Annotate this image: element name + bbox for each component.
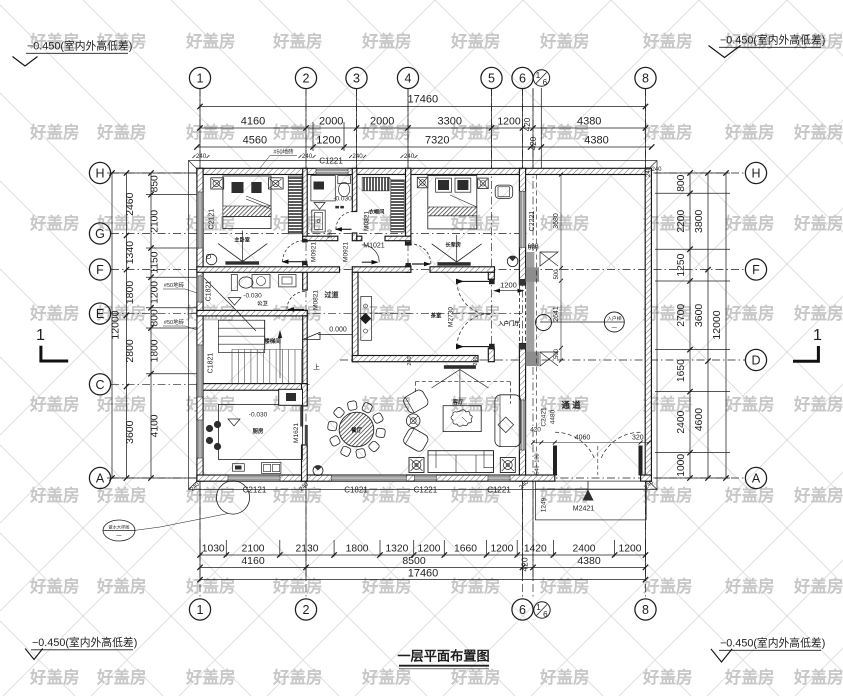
svg-text:6: 6 <box>519 72 526 86</box>
svg-text:17460: 17460 <box>408 94 439 106</box>
svg-text:好盖房: 好盖房 <box>361 667 412 687</box>
svg-text:长辈房: 长辈房 <box>445 240 461 248</box>
svg-text:好盖房: 好盖房 <box>185 576 236 596</box>
svg-text:好盖房: 好盖房 <box>724 303 775 323</box>
svg-text:12000: 12000 <box>711 310 723 339</box>
svg-text:好盖房: 好盖房 <box>361 394 412 414</box>
svg-text:衣帽间: 衣帽间 <box>369 208 385 216</box>
svg-text:8: 8 <box>642 603 649 617</box>
svg-text:好盖房: 好盖房 <box>642 31 693 51</box>
svg-text:好盖房: 好盖房 <box>642 122 693 142</box>
svg-text:F: F <box>752 263 760 277</box>
svg-text:M1621: M1621 <box>293 423 300 443</box>
svg-text:好盖房: 好盖房 <box>185 122 236 142</box>
svg-text:1: 1 <box>197 72 204 86</box>
svg-text:#50地砖: #50地砖 <box>164 281 185 289</box>
svg-text:好盖房: 好盖房 <box>96 122 147 142</box>
svg-text:4160: 4160 <box>241 116 265 128</box>
svg-text:500: 500 <box>554 348 560 359</box>
svg-text:好盖房: 好盖房 <box>272 485 323 505</box>
svg-text:3: 3 <box>353 72 360 86</box>
svg-text:1000: 1000 <box>676 454 687 477</box>
svg-text:4: 4 <box>405 72 412 86</box>
svg-text:−0.450(室内外高低差): −0.450(室内外高低差) <box>720 636 825 650</box>
svg-text:420: 420 <box>529 136 538 150</box>
svg-text:240: 240 <box>302 153 313 160</box>
svg-text:好盖房: 好盖房 <box>29 394 80 414</box>
svg-text:好盖房: 好盖房 <box>96 667 147 687</box>
svg-text:C1821: C1821 <box>344 486 368 495</box>
svg-text:好盖房: 好盖房 <box>29 576 80 596</box>
svg-text:1200: 1200 <box>490 544 513 555</box>
svg-text:3300: 3300 <box>438 116 462 128</box>
svg-text:M0821: M0821 <box>364 211 371 231</box>
svg-text:1800: 1800 <box>124 281 136 305</box>
svg-text:6: 6 <box>519 603 526 617</box>
svg-text:好盖房: 好盖房 <box>724 122 775 142</box>
svg-text:A: A <box>752 472 761 486</box>
svg-text:好盖房: 好盖房 <box>793 576 843 596</box>
svg-text:800: 800 <box>150 309 161 326</box>
svg-text:H: H <box>751 167 760 181</box>
svg-text:2200: 2200 <box>676 209 687 232</box>
svg-text:1250: 1250 <box>676 253 687 276</box>
svg-text:2000: 2000 <box>319 116 343 128</box>
svg-text:C1221: C1221 <box>319 157 343 166</box>
svg-text:C1821: C1821 <box>208 353 215 374</box>
svg-text:好盖房: 好盖房 <box>793 394 843 414</box>
svg-text:楼梯间: 楼梯间 <box>264 337 281 345</box>
svg-text:好盖房: 好盖房 <box>272 667 323 687</box>
svg-text:一: 一 <box>116 534 122 540</box>
svg-text:4380: 4380 <box>584 135 608 147</box>
svg-text:C2121: C2121 <box>243 486 267 495</box>
svg-text:17460: 17460 <box>408 568 439 580</box>
svg-text:好盖房: 好盖房 <box>29 122 80 142</box>
svg-text:C2421: C2421 <box>541 407 548 427</box>
svg-text:好盖房: 好盖房 <box>96 576 147 596</box>
svg-text:1150: 1150 <box>150 251 161 273</box>
svg-text:C2221: C2221 <box>529 211 536 232</box>
svg-text:0.000: 0.000 <box>329 327 347 334</box>
svg-text:420: 420 <box>523 117 532 131</box>
svg-text:600: 600 <box>528 243 539 250</box>
svg-text:好盖房: 好盖房 <box>450 303 501 323</box>
svg-text:2460: 2460 <box>124 192 136 216</box>
svg-text:6: 6 <box>543 78 548 87</box>
svg-text:420: 420 <box>520 557 530 571</box>
svg-text:好盖房: 好盖房 <box>272 122 323 142</box>
svg-text:3600: 3600 <box>693 304 705 328</box>
svg-text:D: D <box>751 354 760 368</box>
svg-text:3800: 3800 <box>693 209 705 233</box>
svg-text:好盖房: 好盖房 <box>185 31 236 51</box>
svg-text:G: G <box>95 227 105 241</box>
svg-text:1200: 1200 <box>418 544 441 555</box>
svg-text:100: 100 <box>535 453 541 462</box>
svg-text:-0.030: -0.030 <box>333 196 352 203</box>
svg-text:1200: 1200 <box>619 544 642 555</box>
svg-text:好盖房: 好盖房 <box>450 576 501 596</box>
svg-text:好盖房: 好盖房 <box>793 667 843 687</box>
svg-text:过道: 过道 <box>325 290 339 299</box>
svg-text:M2421: M2421 <box>573 506 595 513</box>
svg-text:厨房: 厨房 <box>253 427 264 435</box>
svg-text:好盖房: 好盖房 <box>29 485 80 505</box>
svg-text:好盖房: 好盖房 <box>724 576 775 596</box>
svg-text:H: H <box>95 167 104 181</box>
svg-text:好盖房: 好盖房 <box>724 485 775 505</box>
svg-text:好盖房: 好盖房 <box>793 213 843 233</box>
svg-text:1: 1 <box>813 327 822 344</box>
svg-text:1200: 1200 <box>500 281 517 290</box>
svg-text:好盖房: 好盖房 <box>539 31 590 51</box>
svg-text:好盖房: 好盖房 <box>642 576 693 596</box>
svg-text:好盖房: 好盖房 <box>29 303 80 323</box>
svg-text:1030: 1030 <box>202 544 225 555</box>
svg-text:240: 240 <box>404 153 415 160</box>
svg-text:1800: 1800 <box>150 339 161 362</box>
svg-text:2100: 2100 <box>242 544 265 555</box>
svg-text:好盖房: 好盖房 <box>272 576 323 596</box>
svg-text:1420: 1420 <box>524 544 547 555</box>
svg-text:3600: 3600 <box>124 420 136 444</box>
svg-text:1320: 1320 <box>385 544 408 555</box>
svg-text:4560: 4560 <box>243 135 267 147</box>
svg-text:4600: 4600 <box>693 408 705 432</box>
svg-text:好盖房: 好盖房 <box>29 667 80 687</box>
svg-text:C2121: C2121 <box>209 209 216 230</box>
svg-text:1340: 1340 <box>124 241 136 265</box>
svg-text:入户门厅: 入户门厅 <box>498 320 520 328</box>
svg-text:1200: 1200 <box>316 135 340 147</box>
svg-text:好盖房: 好盖房 <box>724 394 775 414</box>
svg-text:餐厅: 餐厅 <box>351 426 362 434</box>
svg-text:好盖房: 好盖房 <box>272 31 323 51</box>
svg-text:入户梯: 入户梯 <box>607 315 622 322</box>
svg-text:150: 150 <box>328 229 334 238</box>
svg-text:好盖房: 好盖房 <box>450 31 501 51</box>
svg-text:上: 上 <box>313 362 320 371</box>
svg-text:M0821: M0821 <box>313 290 320 310</box>
svg-text:通 道: 通 道 <box>561 400 581 410</box>
svg-text:好盖房: 好盖房 <box>724 213 775 233</box>
svg-text:240: 240 <box>473 356 479 365</box>
svg-text:2400: 2400 <box>676 410 687 433</box>
svg-text:420: 420 <box>530 427 541 434</box>
svg-text:1: 1 <box>197 603 204 617</box>
svg-text:1200: 1200 <box>150 281 161 304</box>
svg-text:#50地砖: #50地砖 <box>164 318 185 326</box>
svg-text:2800: 2800 <box>124 339 136 363</box>
svg-text:好盖房: 好盖房 <box>539 576 590 596</box>
svg-text:好盖房: 好盖房 <box>793 303 843 323</box>
svg-text:4060: 4060 <box>575 435 591 442</box>
svg-text:-0.030: -0.030 <box>243 293 262 300</box>
svg-text:6: 6 <box>543 610 548 619</box>
svg-text:A: A <box>96 472 105 486</box>
svg-text:1249: 1249 <box>541 497 548 512</box>
svg-text:M0921: M0921 <box>343 242 350 262</box>
svg-text:8: 8 <box>642 72 649 86</box>
svg-text:2: 2 <box>303 603 310 617</box>
svg-text:−0.450(室内外高低差): −0.450(室内外高低差) <box>720 33 825 47</box>
svg-text:M1021: M1021 <box>363 243 385 250</box>
svg-text:240: 240 <box>196 153 207 160</box>
svg-text:好盖房: 好盖房 <box>539 667 590 687</box>
svg-text:M0921: M0921 <box>311 242 318 262</box>
svg-text:1: 1 <box>36 327 45 344</box>
svg-text:12000: 12000 <box>110 310 122 339</box>
svg-text:800: 800 <box>676 174 687 191</box>
svg-text:好盖房: 好盖房 <box>29 213 80 233</box>
svg-text:主卧室: 主卧室 <box>234 236 250 244</box>
svg-text:好盖房: 好盖房 <box>185 667 236 687</box>
svg-text:好盖房: 好盖房 <box>539 303 590 323</box>
svg-text:C1821: C1821 <box>206 281 213 302</box>
svg-text:-0.030: -0.030 <box>249 412 268 419</box>
svg-text:4480: 4480 <box>550 409 557 424</box>
svg-text:540: 540 <box>535 465 541 474</box>
svg-text:3680: 3680 <box>553 213 560 229</box>
svg-text:2: 2 <box>303 72 310 86</box>
svg-text:7320: 7320 <box>425 135 449 147</box>
svg-text:1: 1 <box>536 603 541 612</box>
svg-text:好盖房: 好盖房 <box>361 31 412 51</box>
svg-text:320: 320 <box>632 435 644 442</box>
svg-text:好盖房: 好盖房 <box>96 394 147 414</box>
svg-text:C: C <box>95 378 104 392</box>
svg-text:2700: 2700 <box>676 304 687 327</box>
svg-text:4380: 4380 <box>577 116 601 128</box>
svg-text:240: 240 <box>352 153 363 160</box>
svg-text:C1221: C1221 <box>414 486 438 495</box>
svg-text:E: E <box>96 307 104 321</box>
svg-text:2641: 2641 <box>553 306 560 322</box>
svg-text:−0.450(室内外高低差): −0.450(室内外高低差) <box>27 39 132 53</box>
svg-text:240: 240 <box>407 356 413 365</box>
svg-text:2130: 2130 <box>296 544 319 555</box>
svg-text:4380: 4380 <box>577 555 601 567</box>
svg-text:好盖房: 好盖房 <box>642 667 693 687</box>
svg-text:C1221: C1221 <box>487 486 511 495</box>
svg-text:500: 500 <box>554 269 560 280</box>
svg-text:好盖房: 好盖房 <box>539 213 590 233</box>
svg-text:一: 一 <box>612 326 618 332</box>
svg-text:好盖房: 好盖房 <box>793 122 843 142</box>
svg-text:4100: 4100 <box>150 414 161 437</box>
svg-text:850: 850 <box>150 175 161 192</box>
svg-text:1: 1 <box>536 71 541 80</box>
svg-text:1660: 1660 <box>454 544 477 555</box>
svg-text:好盖房: 好盖房 <box>361 485 412 505</box>
svg-text:好盖房: 好盖房 <box>450 667 501 687</box>
svg-text:客厅: 客厅 <box>453 398 464 406</box>
svg-text:1200: 1200 <box>497 116 521 128</box>
svg-text:F: F <box>96 263 104 277</box>
svg-text:−0.450(室内外高低差): −0.450(室内外高低差) <box>32 635 137 649</box>
svg-text:茶室: 茶室 <box>430 312 442 320</box>
svg-text:1650: 1650 <box>676 359 687 382</box>
svg-text:2400: 2400 <box>573 544 596 555</box>
svg-text:2100: 2100 <box>150 210 161 233</box>
svg-text:240: 240 <box>651 167 662 173</box>
svg-text:散水大样图: 散水大样图 <box>109 524 130 531</box>
svg-text:5: 5 <box>488 72 495 86</box>
svg-text:8500: 8500 <box>402 555 426 567</box>
svg-text:好盖房: 好盖房 <box>724 667 775 687</box>
svg-text:好盖房: 好盖房 <box>361 576 412 596</box>
svg-text:一层平面布置图: 一层平面布置图 <box>397 648 489 664</box>
svg-text:好盖房: 好盖房 <box>793 485 843 505</box>
svg-text:M2730: M2730 <box>448 307 455 327</box>
svg-text:#50地砖: #50地砖 <box>273 148 294 156</box>
svg-text:公卫: 公卫 <box>257 300 268 307</box>
svg-text:1800: 1800 <box>346 544 369 555</box>
svg-text:4160: 4160 <box>241 555 265 567</box>
svg-text:2000: 2000 <box>370 116 394 128</box>
